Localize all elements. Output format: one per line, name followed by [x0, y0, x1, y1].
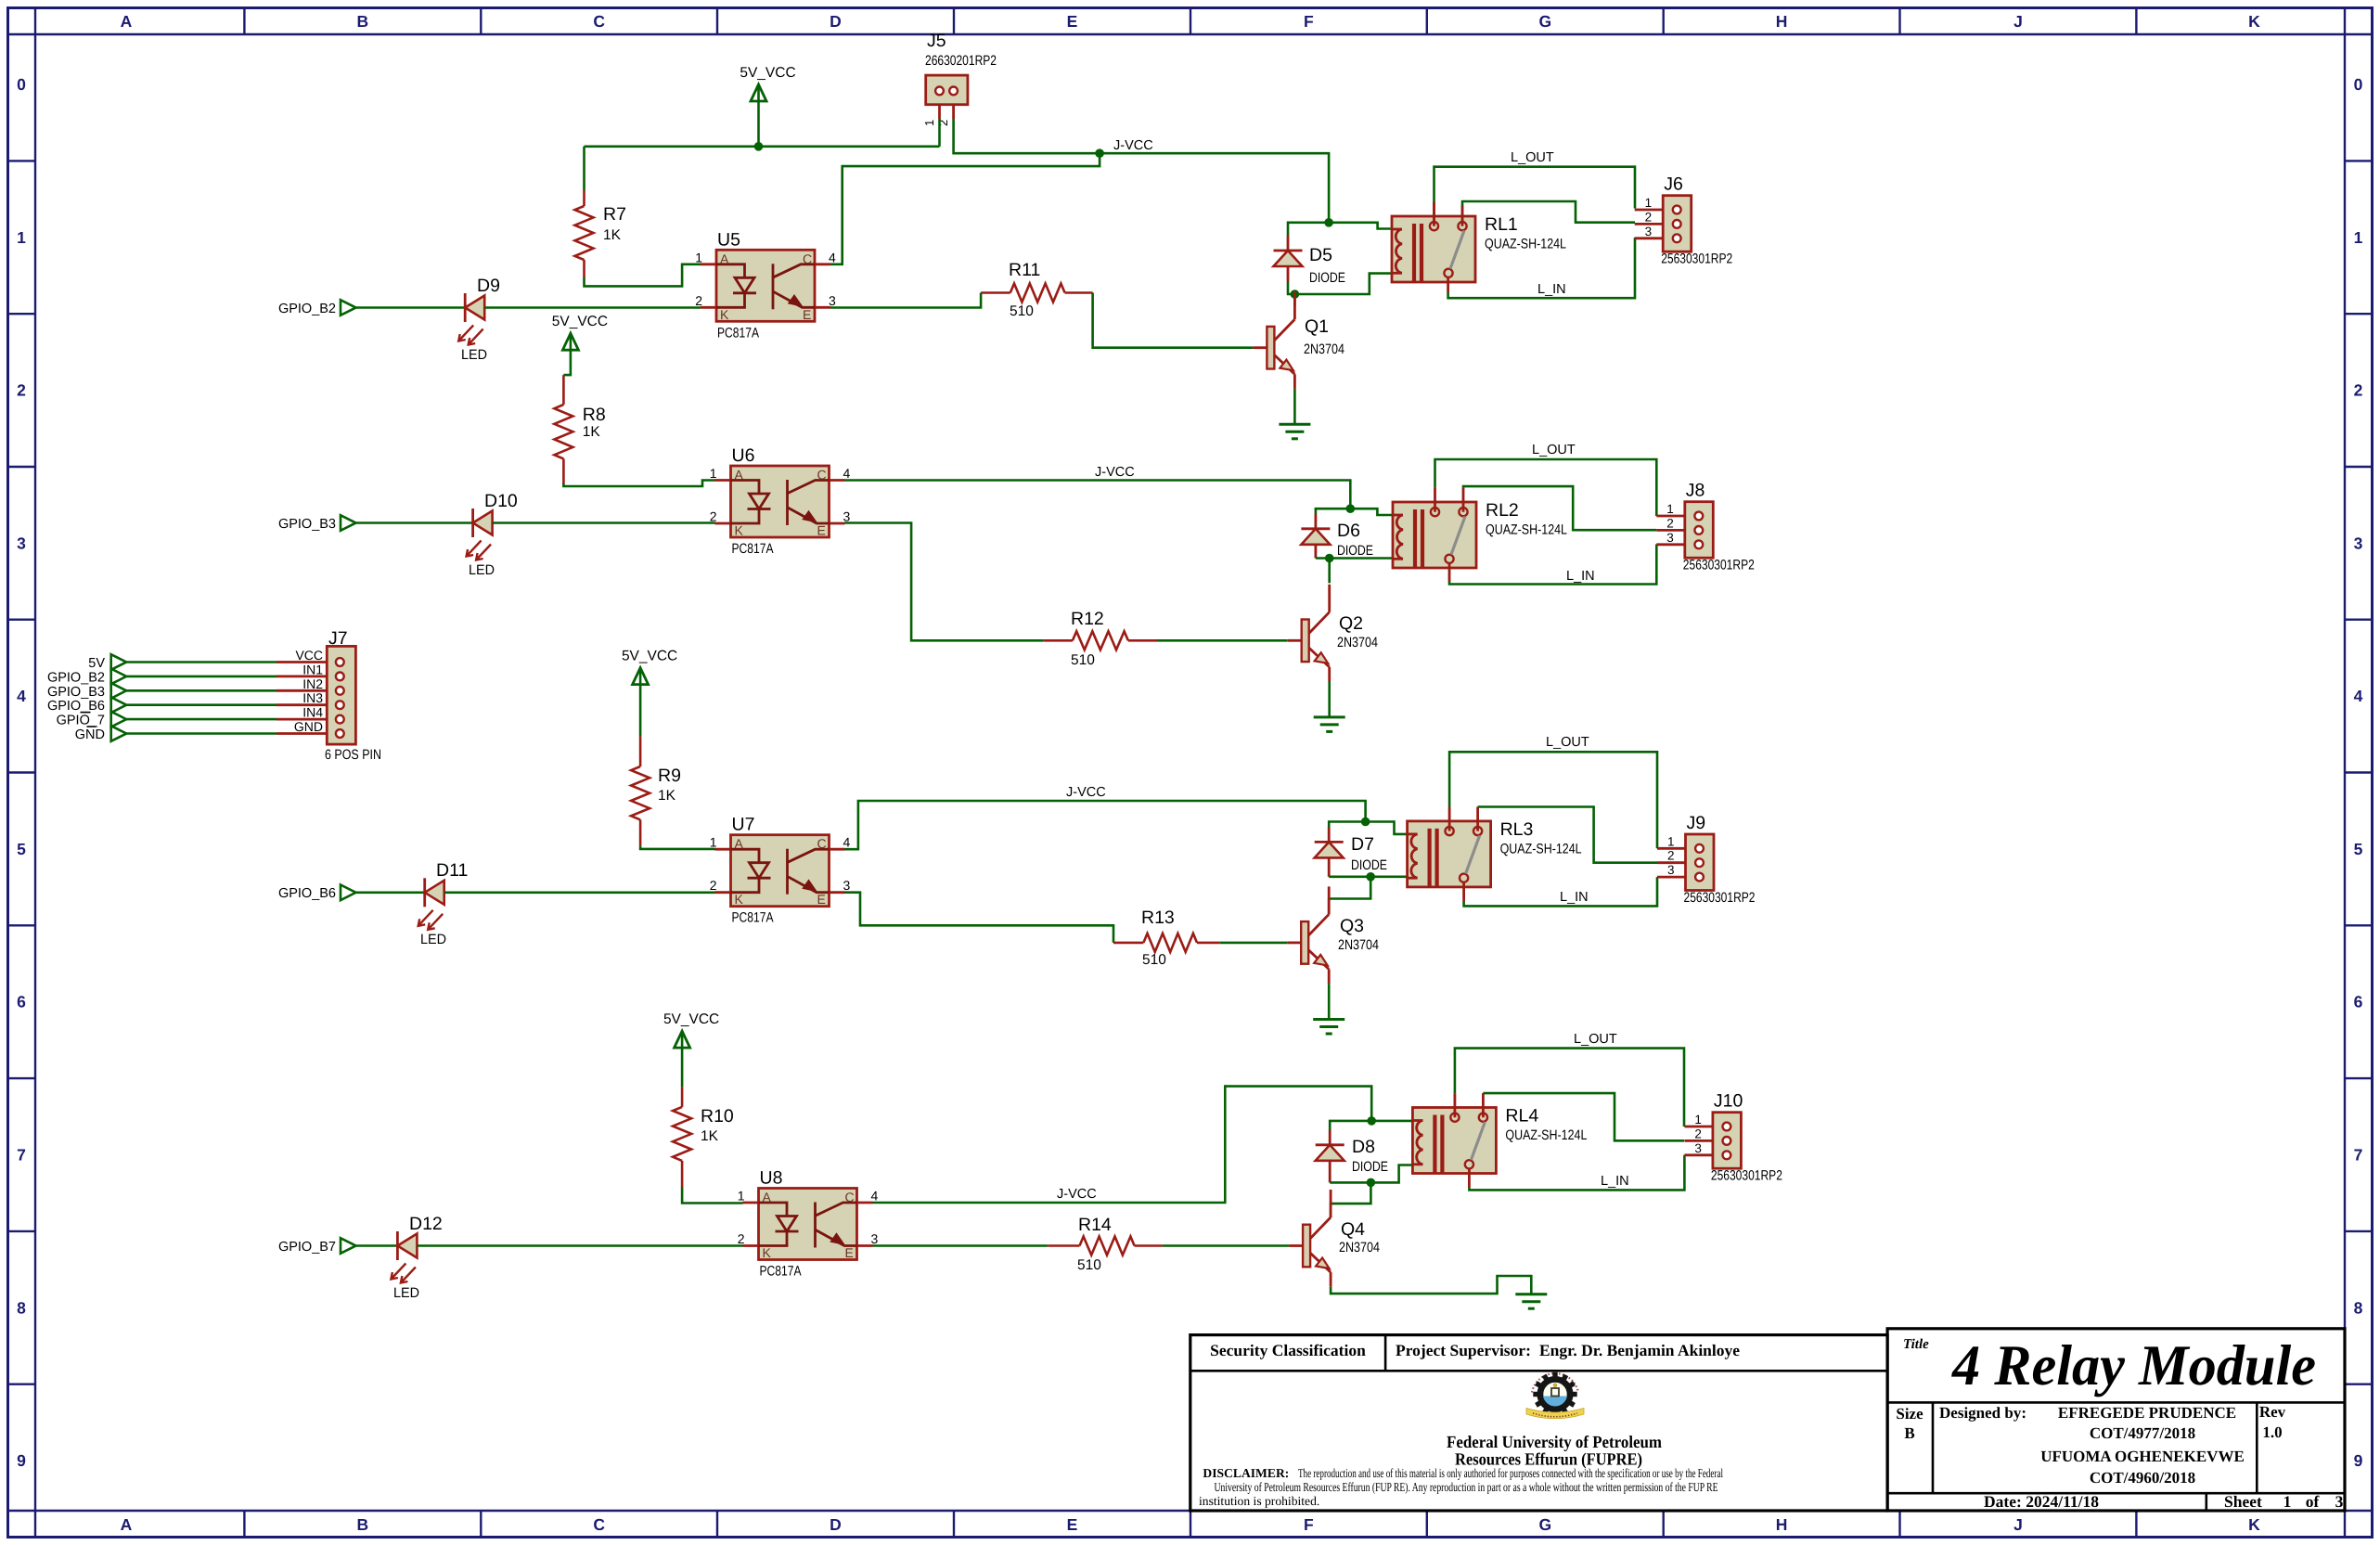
svg-text:A: A: [763, 1190, 772, 1204]
svg-text:C: C: [817, 468, 827, 483]
wire Q1 emitter to ground: [1293, 389, 1296, 424]
svg-text:Designed by:: Designed by:: [1939, 1404, 2026, 1422]
svg-text:PC817A: PC817A: [717, 325, 759, 341]
svg-text:DIODE: DIODE: [1351, 857, 1387, 873]
wire Q3 emitter to ground: [1328, 984, 1331, 1019]
svg-text:D6: D6: [1337, 521, 1360, 541]
svg-text:D8: D8: [1352, 1137, 1375, 1157]
junction D5 anode: [1291, 290, 1300, 299]
wire D8 anode to RL4 coil: [1330, 1165, 1412, 1183]
svg-text:1: 1: [738, 1189, 745, 1204]
svg-text:U8: U8: [760, 1168, 783, 1189]
svg-text:L_OUT: L_OUT: [1532, 443, 1576, 457]
label COT/4960/2018: [2090, 1469, 2195, 1487]
wire U5 pin4 to J-VCC: [830, 153, 1100, 264]
svg-text:6: 6: [17, 993, 26, 1011]
svg-text:K: K: [735, 523, 744, 538]
svg-text:D5: D5: [1309, 245, 1332, 265]
svg-text:C: C: [593, 12, 605, 31]
svg-text:D: D: [830, 12, 842, 31]
wire 5V bus: [585, 146, 940, 148]
svg-text:GPIO_B3: GPIO_B3: [278, 517, 336, 532]
svg-text:D12: D12: [409, 1214, 443, 1234]
junction on 5V bus: [754, 142, 764, 151]
net label L_IN (channel 1): [1537, 282, 1566, 297]
FUPRE logo: [1526, 1372, 1584, 1419]
svg-text:QUAZ-SH-124L: QUAZ-SH-124L: [1500, 841, 1582, 856]
svg-text:E: E: [845, 1245, 854, 1260]
wire RL4 L_OUT: [1455, 1049, 1684, 1127]
svg-text:Size: Size: [1896, 1405, 1923, 1423]
label Date: [1984, 1492, 2099, 1511]
transistor Q2: [1288, 585, 1378, 682]
junction above D5: [1324, 218, 1333, 227]
svg-text:F: F: [1304, 12, 1314, 31]
svg-text:institution is prohibited.: institution is prohibited.: [1199, 1494, 1319, 1508]
wire RL4 contact to J10 pin2: [1483, 1093, 1684, 1140]
svg-text:4: 4: [2354, 687, 2363, 705]
svg-text:3: 3: [2335, 1492, 2344, 1511]
svg-text:1K: 1K: [658, 788, 676, 804]
svg-text:3: 3: [17, 534, 26, 552]
wire GPIO_B2 to J7: [126, 676, 277, 678]
input terminal GPIO_B6: [278, 885, 356, 902]
svg-text:Q2: Q2: [1339, 613, 1363, 634]
wire J-VCC to RL1 coil: [1329, 223, 1392, 229]
input terminal 5V (J7): [88, 654, 126, 671]
resistor R7: [575, 147, 626, 277]
svg-text:1.0: 1.0: [2262, 1423, 2282, 1441]
net label J-VCC (channel 1): [1113, 138, 1153, 153]
svg-text:E: E: [1067, 12, 1078, 31]
svg-text:GPIO_B2: GPIO_B2: [47, 670, 105, 685]
svg-text:L_OUT: L_OUT: [1511, 150, 1554, 165]
svg-text:3: 3: [1694, 1141, 1702, 1155]
relay RL2: [1393, 500, 1567, 568]
svg-text:C: C: [845, 1190, 855, 1204]
svg-text:2: 2: [738, 1231, 745, 1246]
svg-text:3: 3: [843, 509, 851, 524]
wire J5 pin2 to J-VCC: [954, 119, 1330, 223]
svg-text:University of Petroleum Resour: University of Petroleum Resources Effuru…: [1215, 1480, 1718, 1494]
svg-text:J-VCC: J-VCC: [1095, 465, 1135, 480]
svg-text:K: K: [2248, 12, 2260, 31]
connector J7: [277, 628, 381, 763]
wire D7 anode to RL3 coil: [1329, 875, 1407, 878]
svg-text:K: K: [735, 892, 744, 907]
svg-text:26630201RP2: 26630201RP2: [925, 53, 997, 69]
wire U7 pin4 J-VCC: [845, 801, 1366, 849]
connector J6: [1635, 174, 1733, 267]
svg-text:1: 1: [2284, 1492, 2292, 1511]
svg-text:L_IN: L_IN: [1560, 890, 1589, 905]
svg-text:PC817A: PC817A: [760, 1264, 802, 1280]
svg-text:Engr. Dr. Benjamin Akinloye: Engr. Dr. Benjamin Akinloye: [1539, 1341, 1740, 1359]
svg-text:2: 2: [710, 509, 717, 524]
junction above D6: [1346, 504, 1356, 513]
net label J-VCC (channel 2): [1095, 465, 1135, 480]
wire D10 to U6 pin2: [493, 521, 715, 524]
svg-text:E: E: [817, 892, 826, 907]
svg-text:U7: U7: [732, 815, 755, 835]
wire RL3 common L_IN: [1464, 877, 1657, 906]
svg-text:25630301RP2: 25630301RP2: [1684, 890, 1756, 906]
net label L_OUT (channel 2): [1532, 443, 1576, 457]
wire RL4 common L_IN: [1469, 1155, 1684, 1191]
wire R10 to U8 pin1: [682, 1187, 742, 1204]
ground (channel 3): [1313, 1020, 1344, 1035]
svg-text:8: 8: [2354, 1298, 2363, 1317]
net label L_OUT (channel 1): [1511, 150, 1554, 165]
svg-text:UFUOMA OGHENEKEVWE: UFUOMA OGHENEKEVWE: [2040, 1448, 2245, 1465]
svg-text:3: 3: [1666, 531, 1674, 545]
resistor R8: [554, 350, 605, 483]
wire junction to Q2 collector: [1328, 559, 1331, 584]
diode D8: [1316, 1130, 1388, 1182]
label COT/4977/2018: [2090, 1424, 2195, 1442]
wire junction to Q4 collector: [1331, 1182, 1370, 1217]
connector J5: [922, 31, 997, 126]
svg-text:Sheet: Sheet: [2224, 1492, 2262, 1511]
net label J-VCC (channel 4): [1057, 1187, 1097, 1202]
svg-text:4: 4: [843, 466, 851, 481]
power symbol 5V_VCC (channel 3): [622, 649, 677, 685]
diode D6: [1301, 514, 1373, 559]
svg-text:RL4: RL4: [1505, 1106, 1538, 1127]
svg-text:H: H: [1776, 12, 1788, 31]
svg-text:B: B: [357, 12, 369, 31]
svg-text:510: 510: [1077, 1257, 1101, 1273]
svg-text:1: 1: [2354, 228, 2363, 247]
svg-text:Rev: Rev: [2259, 1403, 2286, 1421]
svg-text:1: 1: [710, 466, 717, 481]
svg-text:6 POS PIN: 6 POS PIN: [325, 747, 381, 763]
resistor R9: [631, 685, 681, 846]
svg-text:PC817A: PC817A: [732, 910, 774, 926]
svg-text:5V: 5V: [88, 656, 105, 671]
svg-text:GPIO_B6: GPIO_B6: [278, 886, 336, 901]
svg-text:J5: J5: [927, 31, 946, 51]
svg-text:IN3: IN3: [302, 690, 323, 705]
svg-text:G: G: [1538, 1515, 1551, 1534]
svg-text:DIODE: DIODE: [1352, 1159, 1388, 1175]
svg-text:4: 4: [829, 250, 836, 264]
junction above D8: [1367, 1116, 1376, 1126]
wire RL1 contact to J6 pin2: [1462, 201, 1635, 226]
svg-text:5V_VCC: 5V_VCC: [740, 65, 795, 81]
svg-text:R11: R11: [1009, 260, 1040, 280]
svg-text:K: K: [763, 1245, 772, 1260]
svg-text:1: 1: [17, 228, 26, 247]
svg-text:2N3704: 2N3704: [1337, 635, 1378, 650]
svg-text:D: D: [830, 1515, 842, 1534]
svg-text:R12: R12: [1071, 609, 1104, 629]
net label J-VCC (channel 3): [1066, 785, 1106, 800]
net label L_IN (channel 4): [1601, 1174, 1629, 1189]
svg-text:3: 3: [843, 878, 851, 893]
wire J-VCC to D6: [1316, 509, 1350, 514]
wire GPIO_B3 to J7: [126, 689, 277, 692]
svg-text:2N3704: 2N3704: [1304, 341, 1344, 357]
power symbol 5V_VCC (channel 1): [740, 65, 795, 101]
svg-text:J10: J10: [1714, 1091, 1743, 1112]
wire GPIO_B3 to D10: [356, 521, 473, 524]
title text 4 Relay Module: [1951, 1334, 2316, 1397]
junction above D7: [1361, 818, 1370, 827]
svg-text:L_OUT: L_OUT: [1574, 1032, 1617, 1047]
svg-text:Project Supervisor:: Project Supervisor:: [1396, 1341, 1531, 1359]
svg-text:R8: R8: [583, 405, 606, 425]
wire J-VCC to D5: [1288, 223, 1329, 236]
svg-text:VCC: VCC: [295, 648, 323, 663]
svg-text:GND: GND: [75, 727, 105, 742]
wire GPIO_B2 to D9: [356, 306, 466, 309]
svg-text:2: 2: [1694, 1127, 1702, 1140]
wire D6 anode to RL2 coil: [1316, 557, 1393, 560]
resistor R13: [1113, 908, 1220, 968]
led D9: [458, 276, 500, 363]
svg-text:C: C: [593, 1515, 605, 1534]
label Rev 1.0: [2259, 1403, 2286, 1441]
svg-text:J-VCC: J-VCC: [1057, 1187, 1097, 1202]
wire J-VCC to RL4 coil: [1371, 1120, 1412, 1123]
svg-text:F: F: [1304, 1515, 1314, 1534]
relay RL3: [1408, 819, 1582, 887]
wire J-VCC to D7: [1329, 822, 1365, 828]
svg-text:U6: U6: [732, 445, 755, 466]
wire R9 to U7 pin1: [640, 845, 714, 849]
svg-text:510: 510: [1010, 303, 1034, 319]
svg-text:E: E: [1067, 1515, 1078, 1534]
svg-text:IN1: IN1: [302, 662, 323, 676]
svg-text:LED: LED: [420, 932, 446, 947]
wire R7 to U5 pin1: [585, 264, 701, 287]
connector J9: [1657, 813, 1756, 906]
ground (channel 1): [1279, 424, 1310, 439]
svg-text:3: 3: [829, 293, 836, 308]
connector J10: [1684, 1091, 1782, 1184]
wire U7 pin3 to R13: [845, 893, 1114, 943]
svg-text:A: A: [735, 468, 744, 483]
led D12: [391, 1214, 442, 1301]
disclaimer text: [1199, 1466, 1723, 1508]
svg-text:1: 1: [1666, 502, 1674, 516]
svg-text:QUAZ-SH-124L: QUAZ-SH-124L: [1486, 522, 1567, 538]
connector J8: [1656, 481, 1755, 573]
svg-text:J-VCC: J-VCC: [1113, 138, 1153, 153]
svg-text:25630301RP2: 25630301RP2: [1661, 251, 1732, 267]
svg-text:8: 8: [17, 1298, 26, 1317]
svg-text:R7: R7: [603, 204, 626, 225]
svg-text:1K: 1K: [603, 227, 622, 243]
svg-text:COT/4977/2018: COT/4977/2018: [2090, 1424, 2195, 1442]
svg-text:LED: LED: [461, 347, 487, 363]
svg-text:2: 2: [2354, 381, 2363, 400]
svg-text:DISCLAIMER:: DISCLAIMER:: [1203, 1466, 1289, 1480]
svg-text:510: 510: [1142, 952, 1166, 968]
svg-text:2: 2: [17, 381, 26, 400]
svg-text:3: 3: [1645, 225, 1653, 238]
svg-text:5: 5: [2354, 840, 2363, 858]
svg-text:3: 3: [2354, 534, 2363, 552]
svg-text:1K: 1K: [701, 1128, 719, 1144]
svg-text:2: 2: [1645, 210, 1653, 224]
svg-text:J9: J9: [1687, 813, 1706, 833]
power symbol 5V_VCC (channel 4): [663, 1011, 719, 1048]
svg-text:EFREGEDE PRUDENCE: EFREGEDE PRUDENCE: [2058, 1404, 2236, 1422]
svg-text:L_OUT: L_OUT: [1546, 735, 1589, 750]
svg-text:GPIO_B2: GPIO_B2: [278, 302, 336, 316]
wire RL2 L_OUT: [1435, 459, 1657, 516]
svg-text:1: 1: [710, 835, 717, 850]
svg-text:L_IN: L_IN: [1566, 569, 1595, 584]
svg-text:J6: J6: [1664, 174, 1683, 195]
svg-text:DIODE: DIODE: [1309, 270, 1345, 286]
svg-text:2N3704: 2N3704: [1338, 937, 1379, 953]
svg-text:9: 9: [17, 1451, 26, 1470]
svg-text:1: 1: [695, 250, 702, 264]
svg-text:IN2: IN2: [302, 676, 323, 691]
label Title: [1903, 1337, 1929, 1352]
svg-text:D7: D7: [1351, 834, 1374, 855]
ground (channel 2): [1314, 717, 1345, 732]
junction D8 anode: [1367, 1178, 1376, 1188]
wire junction to Q3 collector: [1329, 877, 1370, 915]
wire D9 to U5 pin2: [484, 306, 701, 309]
svg-text:B: B: [357, 1515, 369, 1534]
input terminal GPIO_7 (J7): [57, 712, 127, 728]
svg-text:A: A: [121, 12, 133, 31]
svg-text:GPIO_7: GPIO_7: [57, 714, 105, 728]
svg-text:E: E: [803, 307, 811, 322]
svg-text:1: 1: [1645, 196, 1653, 210]
svg-text:J-VCC: J-VCC: [1066, 785, 1106, 800]
svg-text:Federal University of Petroleu: Federal University of Petroleum: [1447, 1434, 1663, 1452]
svg-text:1: 1: [1667, 834, 1675, 848]
wire R13 to Q3 base: [1220, 942, 1288, 945]
title block frame: [1190, 1329, 2345, 1511]
net label L_IN (channel 3): [1560, 890, 1589, 905]
label Designed by: [1939, 1404, 2026, 1422]
wire J-VCC to D8: [1330, 1121, 1371, 1130]
diode D7: [1315, 827, 1387, 877]
svg-text:U5: U5: [717, 229, 740, 250]
svg-text:J: J: [2013, 1515, 2023, 1534]
svg-text:3: 3: [871, 1231, 879, 1246]
svg-text:25630301RP2: 25630301RP2: [1711, 1168, 1782, 1184]
wire RL1 L_OUT: [1434, 167, 1636, 226]
svg-text:COT/4960/2018: COT/4960/2018: [2090, 1469, 2195, 1487]
svg-text:0: 0: [17, 75, 26, 94]
wire U6 pin3 to R12: [845, 523, 1044, 641]
svg-text:of: of: [2306, 1492, 2320, 1511]
input terminal GPIO_B2 (J7): [47, 669, 126, 686]
svg-text:A: A: [735, 836, 744, 851]
wire R8 to U6 pin1: [563, 481, 714, 487]
svg-text:Title: Title: [1903, 1337, 1929, 1352]
svg-text:1: 1: [922, 120, 936, 126]
diode D5: [1274, 236, 1346, 287]
wire GPIO_7 to J7: [126, 718, 277, 721]
svg-text:0: 0: [2354, 75, 2363, 94]
wire RL2 common L_IN: [1449, 545, 1656, 585]
svg-text:RL1: RL1: [1485, 214, 1518, 235]
svg-text:B: B: [1904, 1424, 1914, 1442]
wire J-VCC to RL3 coil: [1366, 822, 1408, 834]
label EFREGEDE PRUDENCE: [2058, 1404, 2236, 1422]
wire RL1 common L_IN: [1448, 238, 1635, 298]
svg-text:L_IN: L_IN: [1537, 282, 1566, 297]
svg-text:RL3: RL3: [1500, 819, 1534, 840]
wire RL3 L_OUT: [1449, 752, 1657, 848]
wire U5 pin3 to R11: [830, 293, 981, 308]
label Project Supervisor: [1396, 1341, 1740, 1359]
svg-text:7: 7: [2354, 1146, 2363, 1165]
svg-text:Q1: Q1: [1305, 316, 1329, 337]
power symbol 5V_VCC (channel 2): [552, 314, 608, 350]
svg-text:R9: R9: [658, 766, 681, 786]
led D11: [418, 860, 469, 947]
resistor R12: [1044, 609, 1157, 668]
wire R11 to Q1 base: [1093, 293, 1254, 348]
wire U8 pin4 J-VCC: [873, 1087, 1372, 1203]
input terminal GND (J7): [75, 726, 126, 742]
svg-text:DIODE: DIODE: [1337, 543, 1373, 559]
svg-text:G: G: [1538, 12, 1551, 31]
junction J-VCC node: [1095, 148, 1104, 158]
svg-text:LED: LED: [469, 562, 495, 578]
svg-text:IN4: IN4: [302, 705, 323, 720]
svg-text:Q3: Q3: [1340, 916, 1364, 936]
wire GPIO_B7 to D12: [356, 1244, 398, 1247]
junction D6 anode: [1325, 554, 1334, 563]
input terminal GPIO_B3 (J7): [47, 683, 126, 700]
svg-text:2: 2: [1667, 849, 1675, 863]
svg-text:D10: D10: [484, 491, 518, 511]
wire J5 pin1 to 5V bus: [938, 119, 941, 147]
svg-text:2: 2: [695, 293, 702, 308]
svg-text:4: 4: [843, 835, 851, 850]
transistor Q4: [1289, 1190, 1380, 1287]
svg-text:4: 4: [17, 687, 26, 705]
svg-text:QUAZ-SH-124L: QUAZ-SH-124L: [1505, 1127, 1587, 1143]
svg-text:R10: R10: [701, 1106, 734, 1127]
svg-text:The reproduction and use of th: The reproduction and use of this materia…: [1298, 1466, 1723, 1480]
wire Q4 emitter to ground: [1331, 1276, 1531, 1294]
wire RL2 contact to J8 pin2: [1463, 486, 1656, 530]
svg-text:D9: D9: [477, 276, 500, 296]
svg-text:5V_VCC: 5V_VCC: [552, 314, 608, 329]
input terminal GPIO_B6 (J7): [47, 697, 126, 714]
label Sheet: [2224, 1492, 2344, 1511]
svg-text:D11: D11: [436, 860, 468, 881]
svg-text:K: K: [720, 307, 729, 322]
label UFUOMA OGHENEKEVWE: [2040, 1448, 2245, 1465]
svg-text:RL2: RL2: [1486, 500, 1519, 521]
ground (channel 4): [1515, 1294, 1547, 1309]
svg-text:510: 510: [1071, 652, 1095, 668]
svg-text:C: C: [803, 251, 812, 266]
wire U6 pin4 J-VCC: [845, 481, 1351, 509]
label Size B: [1896, 1405, 1923, 1442]
wire U8 pin3 to R14: [873, 1244, 1048, 1247]
svg-text:QUAZ-SH-124L: QUAZ-SH-124L: [1485, 237, 1566, 252]
svg-text:4: 4: [871, 1189, 879, 1204]
relay RL1: [1392, 214, 1566, 282]
wire D11 to U7 pin2: [444, 891, 715, 894]
svg-text:A: A: [121, 1515, 133, 1534]
wire R12 to Q2 base: [1157, 639, 1288, 642]
